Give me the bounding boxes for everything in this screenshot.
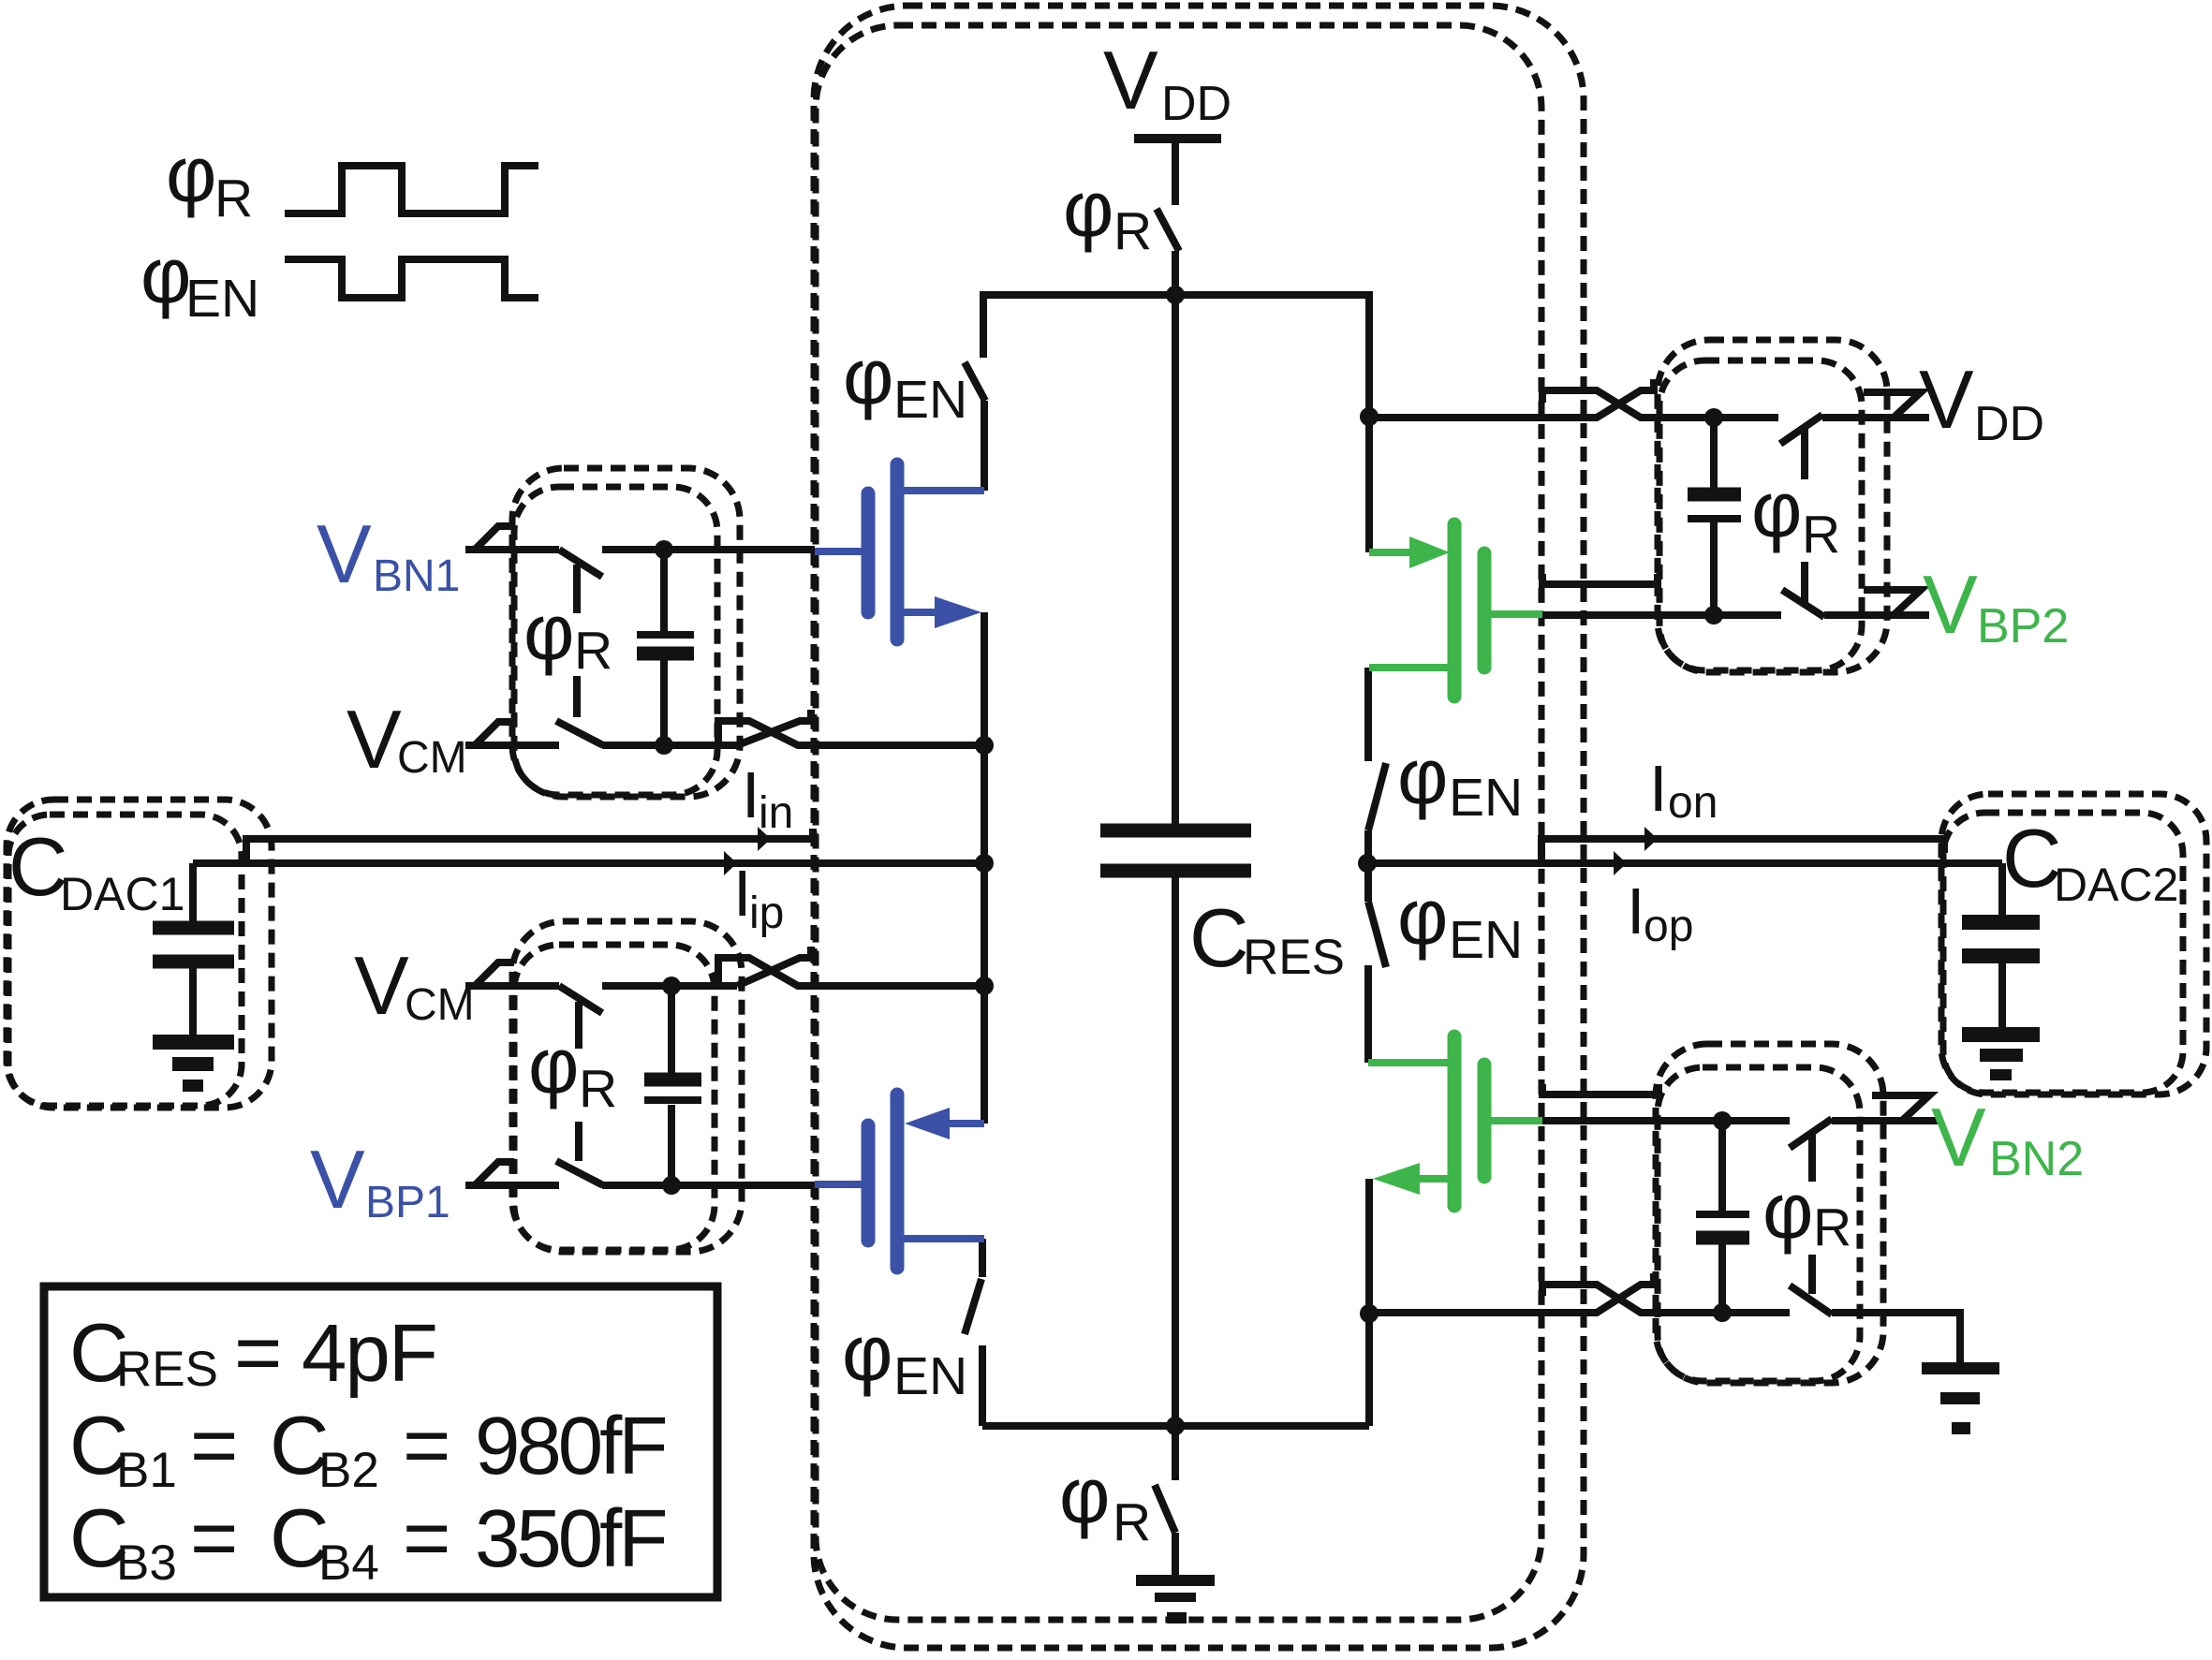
svg-text:DAC2: DAC2 [2054,859,2178,911]
svg-text:on: on [1668,778,1718,828]
svg-text:I: I [1627,874,1644,948]
svg-text:=: = [403,1399,450,1491]
svg-text:EN: EN [185,269,259,329]
svg-text:in: in [759,788,793,838]
svg-text:4pF: 4pF [302,1308,436,1399]
svg-text:V: V [1923,558,1978,651]
svg-text:DD: DD [1161,77,1231,131]
svg-text:B3: B3 [116,1535,177,1591]
svg-text:CM: CM [397,733,467,783]
svg-text:φ: φ [166,130,216,218]
svg-text:R: R [574,621,612,681]
svg-text:φ: φ [1397,873,1448,961]
svg-text:V: V [1919,353,1974,446]
svg-text:φ: φ [842,1309,892,1397]
svg-text:V: V [1931,1091,1986,1183]
svg-text:EN: EN [1449,910,1523,970]
svg-text:V: V [1103,34,1158,126]
svg-text:RES: RES [1243,930,1345,985]
svg-text:EN: EN [893,370,967,430]
svg-text:R: R [1113,1492,1151,1552]
svg-text:BN2: BN2 [1989,1132,2084,1186]
svg-text:φ: φ [528,1021,579,1109]
svg-text:EN: EN [1449,768,1523,828]
svg-text:op: op [1644,902,1693,951]
svg-text:ip: ip [749,889,784,938]
svg-text:=: = [403,1491,450,1584]
svg-text:R: R [1813,1197,1851,1257]
svg-text:φ: φ [1397,732,1448,820]
svg-text:EN: EN [893,1346,967,1406]
svg-text:=: = [190,1399,238,1491]
svg-text:B2: B2 [318,1443,379,1498]
svg-text:φ: φ [1063,165,1113,253]
svg-text:I: I [1649,752,1667,825]
svg-text:φ: φ [1751,465,1802,553]
svg-text:C: C [1189,891,1249,984]
svg-text:=: = [234,1306,282,1399]
svg-text:BN1: BN1 [373,551,460,601]
svg-text:BP1: BP1 [365,1178,450,1227]
svg-text:V: V [317,507,372,600]
svg-text:φ: φ [524,588,574,676]
svg-text:980fF: 980fF [475,1401,665,1491]
svg-text:V: V [347,693,402,786]
svg-text:V: V [310,1133,365,1226]
svg-text:φ: φ [140,231,191,319]
svg-text:350fF: 350fF [475,1493,665,1584]
svg-text:RES: RES [116,1342,218,1397]
svg-text:R: R [1113,201,1152,261]
svg-text:BP2: BP2 [1977,599,2069,654]
svg-text:CM: CM [405,980,475,1030]
svg-text:V: V [354,939,409,1032]
svg-text:I: I [742,758,759,831]
svg-text:B4: B4 [318,1535,379,1591]
svg-text:R: R [579,1059,617,1119]
svg-text:φ: φ [843,332,893,420]
svg-text:R: R [1802,505,1840,565]
svg-text:=: = [190,1491,238,1584]
svg-text:DD: DD [1974,397,2044,451]
svg-text:B1: B1 [116,1443,177,1498]
svg-text:φ: φ [1059,1451,1110,1539]
svg-text:φ: φ [1762,1167,1813,1255]
svg-text:R: R [214,169,253,228]
svg-text:DAC1: DAC1 [60,868,184,920]
